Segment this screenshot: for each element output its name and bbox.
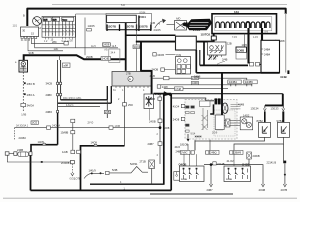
wire thin pin3 [244, 34, 246, 47]
svg-text:22141 B: 22141 B [267, 160, 277, 164]
svg-text:1/4O5: 1/4O5 [88, 24, 96, 28]
junction 22O8 [159, 94, 161, 164]
relay group hooks [107, 16, 152, 32]
wire junction to right elbow [171, 93, 283, 95]
wire W5 nested elbows [195, 50, 197, 73]
connector 34/0A [21, 103, 26, 106]
svg-text:24B0: 24B0 [46, 93, 53, 97]
wire x136 relay to E-box [135, 23, 137, 72]
svg-text:29OB: 29OB [86, 55, 93, 59]
X-box A/D [175, 21, 187, 31]
wire W4 thick [136, 30, 214, 42]
svg-text:1/OB: 1/OB [115, 125, 121, 128]
svg-text:2V8C: 2V8C [181, 151, 188, 155]
wire fusebox right verticals [76, 14, 85, 55]
svg-text:2T1B: 2T1B [140, 159, 146, 163]
svg-text:24BO: 24BO [46, 110, 53, 114]
svg-text:fuses: fuses [62, 19, 67, 21]
component 1W8 [174, 172, 188, 181]
ECU ground lead [187, 134, 189, 141]
fuse table 11/5 [42, 16, 75, 37]
svg-text:34CB: 34CB [46, 82, 53, 86]
svg-text:2/5O B: 2/5O B [27, 82, 35, 86]
ground arrow mid [210, 166, 212, 185]
svg-text:31 30 15: 31 30 15 [21, 39, 31, 42]
wire bundle A with connector 24D8 [35, 39, 118, 48]
svg-text:1k-5: 1k-5 [112, 45, 117, 48]
svg-text:41O4: 41O4 [173, 105, 180, 109]
svg-text:15A8B: 15A8B [61, 130, 69, 134]
svg-text:2O8B: 2O8B [237, 49, 244, 53]
wire left elbow 1405 [31, 145, 58, 152]
connector box 13A [212, 14, 277, 34]
svg-text:24B4: 24B4 [264, 47, 271, 51]
svg-text:24OB: 24OB [148, 97, 155, 101]
svg-text:9/9n 3/4O-1 A/DL: 9/9n 3/4O-1 A/DL [63, 97, 82, 100]
page border top [52, 3, 287, 5]
svg-text:24OB: 24OB [149, 119, 156, 123]
wire 3 horizontals to E-box [61, 99, 108, 101]
svg-text:24B4: 24B4 [264, 53, 271, 57]
wire H2B down [149, 109, 151, 121]
svg-text:4490: 4490 [192, 81, 198, 85]
connector 2BW9 [230, 151, 233, 154]
svg-text:34.4: 34.4 [111, 52, 116, 55]
connector row bottom: 2V8C [181, 150, 191, 154]
connector 24BQ [206, 151, 209, 154]
svg-text:24O8: 24O8 [194, 75, 201, 79]
svg-text:15O4: 15O4 [139, 15, 146, 19]
svg-text:4O4B: 4O4B [259, 188, 266, 192]
label E2/50B [24, 82, 26, 84]
svg-text:5-R: 5-R [121, 4, 125, 7]
wire thick from pin2 [261, 28, 263, 41]
wire bundle B y=127.6 [15, 127, 161, 129]
svg-text:4-8-2 1: 4-8-2 1 [66, 104, 74, 107]
wire thick from pin to ECU area [247, 28, 249, 64]
svg-text:34OB: 34OB [152, 68, 159, 72]
svg-text:2BW9: 2BW9 [234, 151, 242, 155]
hatched connector wedge [183, 19, 212, 30]
svg-text:1/C5: 1/C5 [242, 43, 248, 47]
wire 25O vertical [124, 86, 126, 146]
svg-text:1k-5: 1k-5 [91, 45, 96, 48]
svg-text:4.1B: 4.1B [150, 74, 156, 78]
ground arrow right1 [261, 184, 264, 187]
label E2/50A [24, 93, 26, 95]
box 2VD4 [261, 40, 280, 73]
label 2VD8 [275, 40, 277, 42]
junction arm thick [154, 93, 172, 95]
svg-text:1-15: 1-15 [253, 36, 258, 39]
wire thick across y=145.8 [81, 146, 125, 191]
page border bottom [3, 197, 297, 199]
switch box 1 [180, 166, 205, 182]
connector labels 3/43 top right [228, 80, 241, 84]
svg-text:13/134: 13/134 [251, 106, 259, 110]
svg-text:4O7B: 4O7B [281, 188, 288, 192]
svg-text:3/43B4: 3/43B4 [229, 80, 238, 84]
wire 1748 [164, 88, 228, 90]
svg-text:(4): (4) [105, 49, 108, 52]
ECU dashed module [185, 100, 237, 140]
component 9R [63, 63, 71, 68]
thick corner above motor [221, 73, 223, 115]
svg-text:14O9: 14O9 [91, 141, 98, 145]
svg-text:2O4O8: 2O4O8 [61, 161, 70, 165]
svg-text:3/43B5: 3/43B5 [245, 80, 254, 84]
wire bottom bus L_B [31, 189, 172, 191]
svg-text:2214B: 2214B [217, 162, 225, 166]
right elbow thick [265, 94, 284, 106]
wire right down to 22/41 [283, 144, 285, 163]
connector on W4 [211, 36, 216, 40]
svg-text:23463: 23463 [19, 136, 27, 140]
wire W1 bus from coil [24, 55, 126, 60]
wire 22I4B horizontal [204, 165, 263, 185]
svg-text:34OB: 34OB [157, 53, 164, 57]
svg-text:B: B [23, 14, 25, 18]
svg-text:7-15: 7-15 [232, 36, 237, 39]
svg-text:8O64: 8O64 [140, 12, 147, 15]
svg-text:1/AB: 1/AB [62, 150, 68, 154]
svg-text:a9R: a9R [64, 64, 69, 68]
module 17/8 box [176, 36, 197, 50]
connector 34O0 [153, 53, 156, 56]
svg-text:414B: 414B [238, 103, 244, 107]
svg-text:5/W31: 5/W31 [130, 162, 138, 166]
svg-text:22O8: 22O8 [163, 126, 170, 130]
wire y=78.2 [152, 78, 247, 80]
svg-text:13A: 13A [234, 10, 239, 14]
wire bottom L_C [150, 193, 233, 195]
ground dashes below coil [22, 72, 24, 107]
svg-text:1748: 1748 [175, 87, 181, 91]
ECU bottom pin wires [188, 140, 210, 151]
svg-text:E: E [129, 77, 131, 81]
svg-text:2Y-O: 2Y-O [88, 121, 94, 125]
svg-text:24B7: 24B7 [148, 142, 155, 146]
svg-text:2/5O A: 2/5O A [27, 93, 35, 97]
svg-text:24O8: 24O8 [103, 43, 110, 47]
wire W2 relay to E-box [125, 23, 127, 71]
svg-text:34/OA: 34/OA [27, 103, 35, 107]
svg-text:24B: 24B [105, 110, 110, 114]
component H2B [144, 94, 154, 109]
svg-text:12B: 12B [227, 42, 232, 46]
svg-text:9/14: 9/14 [191, 133, 196, 136]
dashed ground from bundle [14, 128, 16, 140]
svg-text:2/1O5: 2/1O5 [154, 28, 162, 32]
svg-text:x x x x: x x x x [195, 136, 202, 138]
antenna curve wire [84, 167, 148, 179]
svg-text:249B: 249B [17, 148, 23, 152]
svg-text:1O1B: 1O1B [181, 179, 187, 181]
ground arrow right2 [284, 163, 286, 184]
svg-text:2O/9: 2O/9 [212, 132, 218, 135]
module 11/1 box [21, 27, 39, 37]
svg-text:1O7B: 1O7B [74, 176, 81, 180]
fuse table x marks [46, 27, 75, 36]
connector 34O4 on W4 [133, 45, 140, 49]
ignition symbol left [155, 19, 175, 28]
svg-text:24BQ: 24BQ [210, 151, 217, 155]
svg-text:O4OB: O4OB [179, 162, 187, 166]
connector row on y64 [250, 62, 254, 66]
fuse table bottom pins [45, 37, 72, 39]
svg-text:A/D: A/D [176, 17, 180, 21]
svg-text:27B: 27B [126, 72, 131, 76]
dark box 2O8B [236, 47, 247, 53]
svg-text:24B7: 24B7 [207, 188, 214, 192]
wire thick bottom-left L [30, 155, 32, 190]
svg-text:1/O2: 1/O2 [32, 121, 38, 125]
svg-text:13C: 13C [54, 47, 59, 51]
svg-text:41.O2: 41.O2 [227, 159, 235, 163]
svg-text:E45: E45 [151, 21, 156, 25]
svg-text:24O/3A: 24O/3A [52, 125, 61, 128]
svg-text:1/41/9: 1/41/9 [89, 169, 97, 173]
component 7/O9 cluster [176, 57, 191, 75]
twin thick verticals [163, 94, 165, 185]
svg-text:2YO5: 2YO5 [193, 28, 201, 32]
wires from transistor boxes left [195, 137, 265, 150]
component 24WB [247, 152, 252, 159]
svg-text:7O9: 7O9 [176, 53, 181, 57]
svg-text:24O8: 24O8 [173, 118, 180, 122]
svg-text:9CB: 9CB [29, 51, 34, 55]
switch box 2 [224, 166, 251, 182]
wire x72.8 with connectors 15A8B [72, 123, 74, 151]
relay 12B [208, 42, 227, 55]
svg-text:13/133: 13/133 [271, 106, 279, 110]
wire main supply bus top [27, 9, 285, 26]
svg-text:15O7B: 15O7B [139, 24, 148, 28]
svg-text:3A 3O/3A 1: 3A 3O/3A 1 [16, 125, 29, 128]
svg-text:414B: 414B [280, 75, 287, 79]
E-box bottom pins [116, 86, 148, 88]
connector pins row [216, 22, 270, 28]
svg-text:34O4: 34O4 [134, 45, 141, 49]
svg-text:11/1: 11/1 [13, 25, 18, 28]
svg-text:1/9B: 1/9B [21, 113, 26, 116]
svg-text:15O7B: 15O7B [107, 24, 116, 28]
svg-text:2/4B: 2/4B [222, 58, 228, 62]
wire from module pin to fusebox [31, 39, 64, 44]
svg-text:181OB: 181OB [180, 143, 188, 147]
relay group 15/1 [106, 14, 152, 30]
module 9R box [109, 49, 120, 63]
ground lead with arrow [71, 164, 73, 174]
wire y=84.8 [157, 84, 252, 85]
E-box control unit [112, 72, 152, 87]
svg-text:24O8: 24O8 [102, 57, 109, 61]
wire bottom L_A [90, 183, 165, 185]
svg-text:24WB: 24WB [253, 154, 260, 158]
svg-text:25O: 25O [128, 103, 133, 107]
svg-text:28C: 28C [52, 40, 57, 44]
twin verticals left [57, 60, 59, 113]
svg-text:1S/TO2: 1S/TO2 [201, 33, 211, 37]
battery/coil 6/46 [15, 60, 28, 72]
svg-text:1O1B: 1O1B [226, 179, 232, 181]
svg-text:5/4B: 5/4B [112, 168, 118, 172]
ticks 24B4 [261, 49, 263, 54]
connector 24B [105, 110, 111, 113]
no-smoking style circle symbol [33, 17, 42, 26]
connector 24O8 inline [101, 57, 111, 61]
wire E-box feeds [106, 86, 108, 100]
wire thin y=162 [7, 155, 70, 162]
module 11/1 pins [21, 37, 37, 39]
junction wire from bus [59, 56, 61, 61]
